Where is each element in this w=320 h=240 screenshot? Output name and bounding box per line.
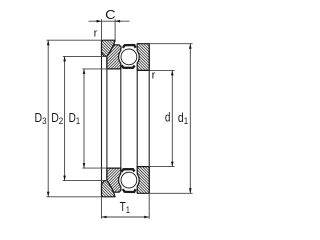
arrowhead T1 left <box>102 216 107 219</box>
dimension line d1 <box>189 44 191 194</box>
ball (top section) <box>121 49 137 65</box>
wire housing washer flange face silhouette <box>106 56 108 180</box>
wire D3 top extension <box>47 39 102 41</box>
arrowhead d1 top <box>189 44 192 49</box>
svg-text:d: d <box>165 112 171 125</box>
wire d1 bottom extension <box>149 192 192 194</box>
arrowhead D3 top <box>47 40 50 45</box>
arrowhead T1 right <box>144 216 149 219</box>
dimension line C <box>89 20 130 22</box>
wire D2 bottom extension <box>63 180 107 182</box>
wire D1 top extension <box>82 68 107 70</box>
label D3 <box>35 112 47 126</box>
label d1 <box>178 112 188 126</box>
wire D3 bottom extension <box>47 196 102 198</box>
svg-text:C: C <box>105 7 116 21</box>
arrowhead d top <box>171 70 174 75</box>
label D1 <box>69 112 81 126</box>
housing washer sphered (top section) <box>107 45 121 69</box>
label r (right) <box>152 69 156 81</box>
arrowhead D2 top <box>63 56 66 61</box>
arrowhead C right <box>115 20 120 23</box>
cage upper strip (bottom section) <box>123 189 136 192</box>
svg-text:r: r <box>152 69 156 81</box>
wire d bottom extension <box>149 166 174 168</box>
wire T1 left extension <box>101 197 103 219</box>
wire housing washer groove face silhouette <box>120 69 122 168</box>
cage upper strip (top section) <box>123 45 136 48</box>
seating washer U (bottom section) <box>102 181 116 197</box>
arrowhead C left <box>97 20 102 23</box>
svg-text:r: r <box>94 27 98 39</box>
dimension line D1 <box>83 69 85 168</box>
wire D1 bottom extension <box>82 167 107 169</box>
arrowhead D2 bottom <box>63 176 66 181</box>
arrowhead D1 bottom <box>83 163 86 168</box>
arrowhead D3 bottom <box>47 192 50 197</box>
wire shaft washer groove face silhouette <box>136 70 138 166</box>
wire C right extension <box>114 19 116 40</box>
label d <box>165 112 171 125</box>
wire d top extension <box>149 69 174 71</box>
ball (bottom section) <box>121 172 137 188</box>
wire D2 top extension <box>63 55 107 57</box>
wire T1 right extension <box>148 193 150 219</box>
wire seating washer left face silhouette <box>101 40 103 197</box>
wire C left extension <box>101 19 103 40</box>
wire shaft washer right face silhouette <box>148 44 150 194</box>
wire d1 top extension <box>149 43 192 45</box>
shaft washer (bottom section) <box>137 167 149 194</box>
arrowhead d bottom <box>171 162 174 167</box>
dimension line d <box>171 70 173 166</box>
label D2 <box>51 112 63 126</box>
cage lower strip (top section) <box>122 65 135 68</box>
dimension line D2 <box>64 56 66 180</box>
dimension line T1 <box>102 216 150 218</box>
housing washer sphered (bottom section) <box>107 168 121 192</box>
shaft washer (top section) <box>137 44 149 71</box>
label C <box>105 7 116 21</box>
label r (top left) <box>94 27 98 39</box>
arrowhead d1 bottom <box>189 188 192 193</box>
arrowhead D1 top <box>83 69 86 74</box>
label T1 <box>120 201 131 215</box>
seating washer U (top section) <box>102 40 116 56</box>
cage lower strip (bottom section) <box>122 169 135 172</box>
dimension line D3 <box>47 40 49 197</box>
